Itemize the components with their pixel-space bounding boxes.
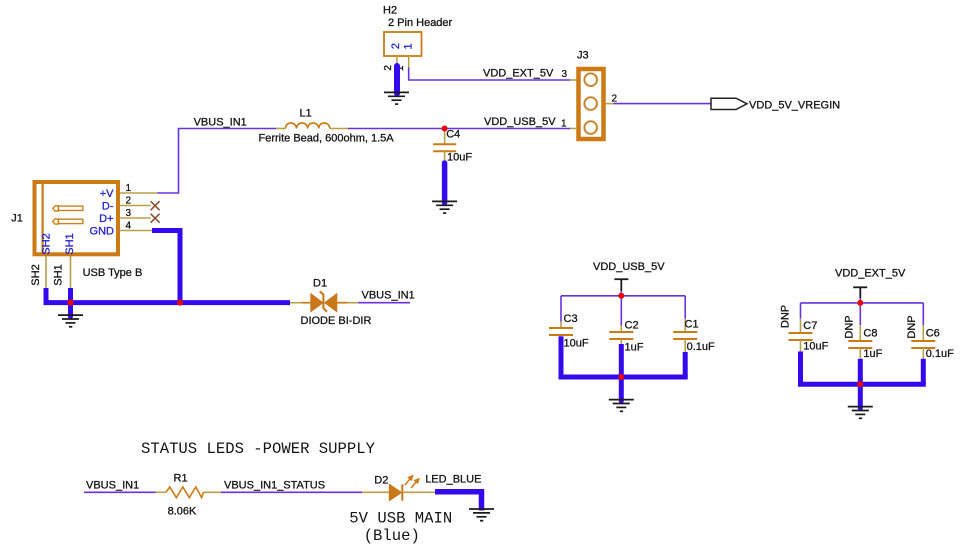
J3 pin 3 stub [570,79,577,81]
thick wire C7 to bus [798,352,803,385]
wire down to C6 [922,303,924,325]
capacitor C3 top stub [560,322,562,329]
svg-text:VBUS_IN1_STATUS: VBUS_IN1_STATUS [224,479,325,491]
LED arrow 2 [411,479,419,488]
header H2 refdes label [383,5,453,30]
svg-text:H2: H2 [383,5,397,17]
svg-text:1: 1 [126,183,132,194]
svg-text:SH1: SH1 [64,233,76,254]
wire down to C2 [620,296,622,326]
resistor R1 left stub [156,491,167,493]
svg-text:0.1uF: 0.1uF [687,341,715,353]
ground under C8 [848,407,873,419]
capacitor C4 top stub [444,129,446,145]
J3 pin 2 circle [584,97,597,110]
J1 pin 4 stub [120,230,152,232]
svg-text:2: 2 [126,195,132,206]
capacitor C7 plates [789,333,813,340]
diode D2 right stub [402,491,435,493]
capacitor C6 bottom stub [922,348,924,359]
svg-text:4: 4 [126,220,132,231]
svg-text:J3: J3 [577,50,589,62]
svg-text:VDD_USB_5V: VDD_USB_5V [484,116,556,128]
svg-text:D-: D- [102,201,114,213]
svg-text:C1: C1 [685,319,699,331]
svg-text:D2: D2 [374,474,388,486]
svg-text:C7: C7 [803,320,817,332]
thick stem to ground left group [619,377,624,401]
capacitor C1 top stub [684,319,686,332]
thick wire C4 to ground [442,163,448,203]
thick wire C3 to bus [559,336,564,377]
capacitor C4 plates [433,144,456,151]
svg-text:2: 2 [390,43,402,49]
J1 SH2 pin stub [45,256,47,289]
thick wire LED_BLUE to ground [435,492,482,511]
connector J3 body [579,69,604,139]
svg-text:VDD_EXT_5V: VDD_EXT_5V [483,68,554,80]
LED arrow 1 [405,476,413,485]
svg-text:VBUS_IN1: VBUS_IN1 [86,479,139,491]
power symbol VDD_USB_5V bar [614,279,628,291]
thick wire J1 pin4 GND down [152,231,180,303]
svg-text:VDD_USB_5V: VDD_USB_5V [593,261,665,273]
thick wire SH1 to ground bus [68,288,73,303]
junction node C4/VDD_USB_5V [442,126,448,132]
diode D2 LED body [389,484,401,500]
svg-text:2: 2 [383,65,394,71]
svg-text:2 Pin Header: 2 Pin Header [388,17,453,29]
wire VBUS_IN1 from J1 pin1 up to L1 [158,129,277,194]
wire VBUS_IN1 right of D1 [358,302,410,304]
thick wire C6 to bus [921,359,926,385]
J1 USB contact symbol upper [53,206,83,211]
wire down to C3 [560,296,562,322]
inductor L1 right stub [330,128,348,130]
off-page connector arrow VDD_5V_VREGIN [711,98,747,109]
J3 pin 1 circle [584,121,597,134]
thick bus under C3 C2 C1 [559,375,688,380]
svg-text:C2: C2 [625,320,639,332]
connector J1 body [35,182,119,254]
svg-text:J1: J1 [11,213,23,225]
wire VDD_USB_5V cap rail [561,295,685,297]
svg-text:3: 3 [561,69,567,80]
svg-text:10uF: 10uF [447,151,472,163]
svg-text:DNP: DNP [906,315,918,338]
svg-text:1uF: 1uF [863,348,882,360]
svg-text:L1: L1 [300,108,312,120]
wire power stem to node [620,291,622,296]
inductor L1 left stub [276,128,285,130]
thick wire C8 to bus [858,359,863,385]
no-connect X on J1 pin 2 [151,201,160,210]
wire power stem to node right [859,298,861,303]
diode D1 right stub [337,302,347,304]
wire VBUS_IN1_STATUS [221,491,362,493]
header H2 body [384,32,422,56]
diode D1 center bar [320,291,327,311]
junction VDD_EXT_5V node [857,300,863,306]
wire VDD_EXT_5V cap rail [801,302,924,304]
thick wire C1 to bus [683,352,688,377]
wire J3 pin2 to off-page arrow [614,103,712,105]
J1 USB contact symbol lower [53,219,83,224]
connector J1 inner shield line [41,184,43,253]
resistor R1 zigzag [166,487,204,498]
svg-text:SH2: SH2 [30,264,42,285]
svg-text:C3: C3 [564,313,578,325]
svg-text:8.06K: 8.06K [168,506,197,518]
svg-text:C8: C8 [863,328,877,340]
junction cap bus node [618,374,624,380]
svg-text:SH2: SH2 [41,233,53,254]
capacitor C6 top stub [922,325,924,341]
svg-text:STATUS LEDS -POWER SUPPLY: STATUS LEDS -POWER SUPPLY [141,440,376,458]
svg-text:10uF: 10uF [564,337,589,349]
capacitor C2 top stub [620,326,622,333]
svg-text:R1: R1 [174,472,188,484]
svg-text:DNP: DNP [779,305,791,328]
J1 pin 2 stub [120,205,151,207]
ground at LED [469,509,494,521]
junction cap bus node right [857,381,863,387]
header H2 pin 1 stub [408,56,410,68]
thick wire C2 to bus [619,344,624,377]
capacitor C4 bottom stub [444,151,446,163]
capacitor C8 bottom stub [859,348,861,359]
J3 pin 3 circle [584,73,597,86]
svg-text:DNP: DNP [844,315,856,338]
no-connect X on J1 pin 3 [151,214,160,223]
svg-text:VBUS_IN1: VBUS_IN1 [194,117,247,129]
wire VBUS_IN1 to R1 [84,491,156,493]
capacitor C7 bottom stub [800,340,802,352]
capacitor C8 plates [848,341,872,348]
junction VDD_USB_5V node [618,293,624,299]
J3 pin 2 stub [606,103,614,105]
svg-text:VDD_5V_VREGIN: VDD_5V_VREGIN [749,100,840,112]
junction pin4/ground bus [177,300,183,306]
capacitor C1 bottom stub [684,339,686,352]
junction SH1/ground [68,300,74,306]
thick bus under C7 C8 C6 [798,382,926,387]
wire L1 to J3 pin1 (VDD_USB_5V) [348,128,570,130]
svg-text:VBUS_IN1: VBUS_IN1 [362,290,415,302]
svg-text:3: 3 [126,208,132,219]
svg-text:Ferrite Bead, 600ohm, 1.5A: Ferrite Bead, 600ohm, 1.5A [259,132,395,144]
svg-text:C6: C6 [926,328,940,340]
J1 SH1 pin stub [70,256,72,289]
thick wire SH2 to ground bus [44,288,49,303]
svg-text:0.1uF: 0.1uF [926,348,954,360]
diode D1 bidirectional TVS body [311,294,337,312]
thick wire H2 pin2 to ground [394,66,400,94]
power symbol VDD_EXT_5V bar [853,287,867,298]
svg-text:DIODE BI-DIR: DIODE BI-DIR [301,315,372,327]
svg-text:USB Type B: USB Type B [83,267,143,279]
svg-text:VDD_EXT_5V: VDD_EXT_5V [835,267,906,279]
svg-text:C4: C4 [446,129,460,141]
wire down to C8 [859,303,861,325]
J3 pin 1 stub [570,128,577,130]
capacitor C2 plates [609,332,633,339]
diode D2 cathode bar [401,484,403,500]
svg-text:GND: GND [90,226,115,238]
capacitor C7 top stub [800,319,802,333]
capacitor C2 bottom stub [620,339,622,344]
ground under C2 [609,400,634,412]
svg-text:(Blue): (Blue) [364,527,420,545]
svg-text:SH1: SH1 [53,264,65,285]
svg-text:LED_BLUE: LED_BLUE [425,474,481,486]
svg-text:5V USB MAIN: 5V USB MAIN [349,510,452,528]
ground under J1 [58,315,83,327]
J1 pin 3 stub [120,217,151,219]
ground under H2 [384,92,409,104]
inductor L1 winding [285,123,329,129]
capacitor C3 plates [549,328,573,335]
capacitor C8 top stub [859,325,861,341]
resistor R1 right stub [204,491,222,493]
header H2 pin 2 stub [396,56,398,66]
wire down to C1 [684,296,686,319]
capacitor C6 plates [911,341,935,348]
svg-text:1uF: 1uF [625,342,644,354]
ground under C4 [432,201,457,213]
svg-text:1: 1 [403,43,415,49]
wire down to C7 [800,303,802,319]
thick ground bus wire [44,300,291,305]
diode D1 left stub [290,302,302,304]
svg-text:D+: D+ [99,213,113,225]
J1 pin 1 stub [120,192,158,194]
svg-text:10uF: 10uF [803,341,828,353]
svg-text:D1: D1 [313,278,327,290]
capacitor C1 plates [673,332,697,339]
thick stem to ground under J1 [68,303,73,317]
svg-text:+V: +V [100,188,114,200]
wire H2 pin1 to J3 pin3 (VDD_EXT_5V) [409,68,570,81]
diode D2 left stub [362,491,389,493]
svg-text:1: 1 [561,118,567,129]
thick stem to ground right group [858,384,863,408]
